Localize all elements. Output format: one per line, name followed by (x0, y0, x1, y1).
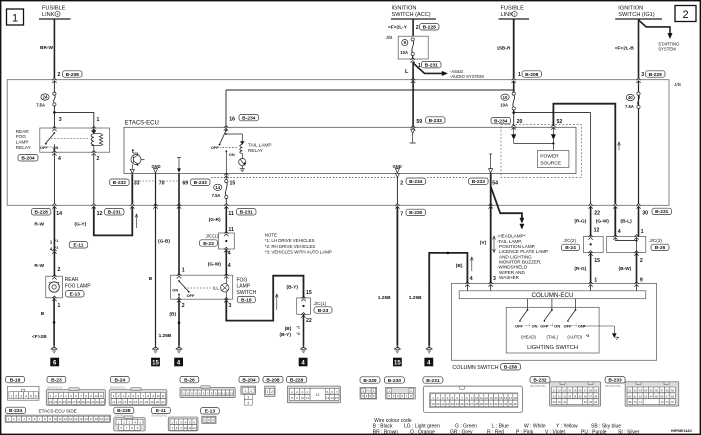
svg-text:J/C(1): J/C(1) (205, 233, 218, 238)
svg-text:(R-G): (R-G) (574, 219, 586, 225)
connector table B-26 (180, 376, 235, 397)
wire colour code legend (373, 418, 640, 435)
svg-text:40: 40 (628, 95, 633, 100)
svg-text:B-231: B-231 (240, 210, 254, 216)
svg-text:30: 30 (642, 211, 648, 217)
node crossing J/B top ACC (411, 78, 415, 83)
svg-text:20: 20 (156, 400, 160, 404)
ETACS internal ground to pin 2 (393, 164, 402, 173)
svg-text:36: 36 (584, 394, 588, 398)
svg-text:<F>2L-B: <F>2L-B (615, 45, 635, 51)
svg-text:(MU803748): (MU803748) (530, 384, 546, 388)
node J/B bottom pin 14 (52, 204, 56, 209)
svg-text:B-18: B-18 (10, 377, 21, 383)
svg-text:ILL: ILL (213, 286, 220, 291)
svg-text:69: 69 (182, 180, 188, 186)
svg-text:15B-R: 15B-R (497, 45, 511, 51)
svg-text:20: 20 (436, 402, 440, 406)
svg-text:J/C(2): J/C(2) (564, 238, 577, 243)
ETACS internal ground to pin 70 (152, 164, 161, 173)
svg-text:18: 18 (95, 417, 99, 421)
svg-text:18: 18 (145, 400, 149, 404)
ignition switch ACC (391, 6, 436, 20)
svg-text:J/B: J/B (386, 35, 393, 41)
connector table E-13 (201, 408, 220, 424)
svg-text:15: 15 (79, 417, 83, 421)
svg-text:R-W: R-W (34, 221, 44, 227)
svg-text:G : Green: G : Green (455, 423, 477, 429)
svg-text:<F>2L-Y: <F>2L-Y (388, 25, 408, 31)
connector B-26 label (651, 244, 669, 251)
svg-text:1.25B: 1.25B (409, 295, 422, 301)
svg-text:16: 16 (134, 400, 138, 404)
svg-text:7.5A: 7.5A (625, 104, 634, 109)
svg-text:21: 21 (91, 400, 95, 404)
power source internal bus (514, 139, 555, 150)
wire G-B pin 69 to fog lamp switch (158, 174, 185, 276)
svg-text:13: 13 (118, 400, 122, 404)
svg-text:33: 33 (568, 394, 572, 398)
svg-text:11: 11 (480, 396, 483, 400)
connector B-234 pin 20 label (491, 117, 511, 124)
svg-text:(G-W): (G-W) (208, 262, 221, 268)
svg-text:*3: VEHICLES WITH AUTO LAMP: *3: VEHICLES WITH AUTO LAMP (265, 249, 332, 254)
column pin 3 label (493, 276, 496, 282)
svg-text:7.5A: 7.5A (36, 103, 45, 108)
svg-text:4: 4 (228, 251, 231, 257)
svg-text:B: B (41, 311, 45, 317)
svg-text:23: 23 (100, 400, 104, 404)
svg-text:24: 24 (568, 388, 572, 392)
svg-text:(G-B): (G-B) (158, 239, 170, 245)
svg-text:SOURCE: SOURCE (540, 160, 562, 166)
svg-text:B-230: B-230 (388, 378, 402, 384)
svg-text:19: 19 (150, 400, 154, 404)
connector table B-23 (46, 376, 105, 405)
svg-text:20: 20 (105, 417, 109, 421)
svg-text:ETACS-ECU SIDE: ETACS-ECU SIDE (39, 409, 77, 414)
node J/B bottom pin 11 (224, 204, 228, 209)
svg-text:14: 14 (56, 211, 62, 217)
svg-text:B-234: B-234 (9, 408, 23, 414)
svg-text:16: 16 (84, 417, 88, 421)
svg-text:B-18: B-18 (241, 297, 252, 303)
svg-text:24: 24 (456, 402, 460, 406)
connector B-230 pin 7 label (400, 209, 425, 217)
ground 15 left (151, 346, 160, 367)
joint connector J/C(1) lower B-23 (297, 296, 327, 318)
svg-text:51: 51 (628, 388, 632, 392)
svg-text:(MU801513): (MU801513) (47, 386, 63, 390)
svg-text:(MU803748): (MU803748) (605, 384, 621, 388)
svg-text:Y : Yellow: Y : Yellow (556, 423, 578, 429)
ETACS-ECU box (124, 121, 576, 174)
svg-text:B-230: B-230 (409, 210, 423, 216)
svg-text:(B-W): (B-W) (619, 266, 632, 272)
svg-text:1: 1 (514, 13, 516, 17)
svg-text:61: 61 (634, 394, 638, 398)
svg-text:15: 15 (306, 290, 312, 296)
svg-text:34: 34 (504, 402, 508, 406)
node J/B bottom crossing pin33 wire (130, 204, 134, 209)
svg-text:2: 2 (250, 389, 252, 393)
ETACS illumination output arrow to pin 69 (177, 158, 181, 173)
fuse 9 10A (400, 38, 414, 59)
svg-text:3: 3 (20, 395, 22, 399)
wire B rear fog lamp to ground (32, 298, 61, 346)
wire G-W label to J/C(3) (596, 207, 621, 237)
svg-text:36: 36 (514, 402, 518, 406)
svg-text:11: 11 (188, 426, 191, 430)
svg-text:GND: GND (393, 164, 402, 169)
wire R-G pin 22 to J/C(2) (574, 113, 599, 237)
svg-text:35: 35 (579, 394, 583, 398)
connector B-208 pin 1 label (522, 71, 542, 78)
wire BR-W from fusible link 4 (40, 19, 61, 78)
svg-text:H9F08E14AC: H9F08E14AC (671, 429, 693, 433)
svg-text:4: 4 (470, 276, 473, 282)
svg-text:56: 56 (655, 388, 659, 392)
svg-text:*1: LH DRIVE VEHICLES: *1: LH DRIVE VEHICLES (265, 238, 315, 243)
sheet code (671, 429, 693, 433)
svg-text:WASHER: WASHER (499, 275, 520, 280)
wire 15B-R from fusible link 1 (497, 19, 521, 78)
sheet tab 2 (675, 6, 696, 22)
rear fog lamp relay name label (16, 129, 32, 150)
svg-text:17: 17 (139, 400, 143, 404)
svg-text:O : Orange: O : Orange (410, 430, 435, 435)
wire L to ETACS pin 59 and audio branch (405, 62, 484, 127)
ignition switch IG1 (615, 6, 662, 20)
relay output pin labels 4 and 2 (58, 156, 100, 162)
svg-text:B-24: B-24 (565, 245, 576, 251)
svg-text:12: 12 (49, 400, 53, 404)
svg-text:(B-L): (B-L) (621, 219, 633, 225)
svg-text:COLUMN-ECU: COLUMN-ECU (532, 292, 574, 299)
wire relay pin 4 to J/B pin 14 (53, 154, 55, 205)
svg-text:28: 28 (475, 402, 479, 406)
connector table B-232 (530, 377, 601, 406)
svg-text:W : White: W : White (524, 423, 546, 429)
svg-text:15: 15 (394, 361, 401, 367)
svg-text:B-228: B-228 (290, 377, 304, 383)
power source box (538, 150, 569, 167)
svg-text:17: 17 (509, 396, 513, 400)
svg-text:41: 41 (563, 400, 567, 404)
svg-text:10: 10 (184, 426, 188, 430)
wire B column pin 4 to ground 4 (409, 252, 473, 346)
svg-text:1: 1 (182, 267, 185, 273)
wire relay pin 2 to J/B pin 12 (93, 154, 95, 205)
svg-text:15: 15 (129, 400, 133, 404)
svg-text:1: 1 (97, 117, 100, 123)
svg-text:TAIL LAMP: TAIL LAMP (248, 142, 271, 147)
svg-text:18: 18 (77, 400, 81, 404)
node below fuse 9 (411, 58, 422, 69)
svg-text:LAMP: LAMP (16, 140, 29, 145)
node J/B bottom pin 30 (636, 204, 648, 217)
connector B-234 pin 2 label (406, 178, 426, 185)
svg-text:(B): (B) (169, 311, 176, 317)
svg-text:4: 4 (618, 229, 621, 235)
svg-text:B-231: B-231 (108, 210, 122, 216)
wire 16 to tail lamp relay from 15B-R junction (226, 90, 591, 127)
svg-text:10: 10 (156, 394, 160, 398)
connector B-231 pin 12 label (97, 209, 124, 217)
svg-text:REAR: REAR (65, 277, 79, 283)
svg-text:E-13: E-13 (70, 292, 81, 298)
wire R-G J/C(2) to column pin 1 (574, 252, 600, 283)
svg-text:*3: *3 (586, 334, 589, 338)
svg-text:11: 11 (228, 227, 234, 233)
svg-text:71: 71 (639, 400, 643, 404)
connector table B-238 (114, 407, 145, 431)
svg-text:(B): (B) (285, 326, 292, 332)
svg-text:LAMP: LAMP (237, 284, 251, 290)
svg-text:1: 1 (10, 395, 12, 399)
svg-text:BR : Brown: BR : Brown (373, 430, 399, 435)
svg-text:4: 4 (247, 401, 249, 405)
svg-text:15: 15 (594, 258, 600, 264)
svg-text:14: 14 (494, 396, 498, 400)
svg-text:B-23: B-23 (318, 308, 329, 314)
svg-text:13: 13 (489, 396, 493, 400)
svg-text:33: 33 (499, 402, 503, 406)
svg-text:12: 12 (97, 211, 103, 217)
svg-text:(MU801513): (MU801513) (110, 386, 126, 390)
svg-text:(G-Y): (G-Y) (75, 221, 87, 227)
svg-text:FUSIBLE: FUSIBLE (501, 6, 525, 12)
svg-text:42: 42 (584, 400, 588, 404)
svg-text:21: 21 (441, 402, 445, 406)
svg-text:13: 13 (326, 396, 330, 400)
connector B-229 pin 3 label (646, 71, 666, 78)
svg-text:53: 53 (639, 388, 643, 392)
svg-text:B-234: B-234 (242, 115, 256, 121)
svg-text:ON: ON (53, 145, 59, 150)
svg-text:16: 16 (68, 400, 72, 404)
wire G-R pin 11 to J/C(1) (209, 207, 234, 234)
svg-text:12: 12 (316, 393, 320, 397)
svg-text:B-23: B-23 (51, 377, 62, 383)
svg-text:28: 28 (589, 388, 593, 392)
svg-text:J/B: J/B (674, 82, 681, 88)
svg-text:IGNITION: IGNITION (618, 6, 643, 12)
connector B-208 pin 2 label (63, 71, 83, 78)
svg-text:10: 10 (503, 95, 508, 100)
svg-text:14: 14 (58, 400, 62, 404)
svg-text:V : Violet: V : Violet (545, 430, 566, 435)
svg-text:B-229: B-229 (649, 72, 663, 78)
column switch box B-258 (452, 283, 657, 371)
svg-text:12: 12 (594, 228, 600, 234)
svg-text:B-258: B-258 (504, 365, 518, 371)
wire R-W pin 14 to rear fog lamp (34, 207, 60, 277)
svg-text:14: 14 (123, 400, 127, 404)
svg-text:27: 27 (470, 402, 474, 406)
node J/B bottom pin 7 (395, 204, 399, 209)
svg-text:10: 10 (475, 396, 479, 400)
lighting switch box (506, 307, 599, 353)
wire G-W J/C(1) to fog lamp switch pin 4 (208, 249, 231, 275)
svg-text:26: 26 (579, 388, 583, 392)
node crossing J/B top 15B-R (512, 78, 516, 92)
svg-text:10: 10 (95, 394, 99, 398)
svg-text:R : Red: R : Red (487, 430, 504, 435)
connector E-13 label (66, 291, 85, 298)
svg-text:2: 2 (400, 180, 403, 186)
connector B-18 label (237, 296, 255, 303)
connector B-258 label (501, 364, 521, 371)
svg-text:OFF: OFF (515, 324, 523, 329)
svg-text:(HEAD): (HEAD) (521, 334, 536, 339)
svg-text:11: 11 (162, 394, 165, 398)
svg-text:10: 10 (53, 417, 57, 421)
connector table B-231 (423, 377, 523, 413)
svg-text:COLUMN SWITCH: COLUMN SWITCH (452, 365, 498, 371)
svg-text:11: 11 (228, 211, 234, 217)
svg-text:62: 62 (639, 394, 643, 398)
svg-text:LG : Light green: LG : Light green (404, 423, 440, 429)
svg-text:7.5A: 7.5A (212, 193, 221, 198)
svg-text:15: 15 (230, 180, 236, 186)
svg-text:*1: *1 (297, 325, 300, 329)
svg-text:20: 20 (86, 400, 90, 404)
note block (265, 233, 332, 255)
wire B pin 70 to ground 15 (149, 276, 153, 282)
svg-text:22: 22 (96, 400, 100, 404)
svg-text:17: 17 (90, 417, 94, 421)
svg-text:OFF: OFF (40, 145, 48, 150)
svg-text:B-208: B-208 (266, 377, 280, 383)
svg-text:FOG: FOG (237, 277, 248, 283)
svg-text:L : Blue: L : Blue (492, 423, 509, 429)
svg-text:19: 19 (431, 402, 435, 406)
rear fog lamp relay B-204 (40, 126, 110, 155)
svg-text:66: 66 (660, 394, 664, 398)
connector B-231 pin 1 label (422, 62, 442, 69)
svg-text:P : Pink: P : Pink (516, 430, 534, 435)
fuse 14 7.5A under ETACS pin 15 (212, 173, 236, 205)
svg-text:B-208: B-208 (66, 72, 80, 78)
svg-text:2: 2 (97, 156, 100, 162)
svg-text:11: 11 (100, 394, 103, 398)
connector table B-233 (605, 377, 679, 406)
ground 4 middle (299, 346, 308, 367)
svg-text:59: 59 (416, 119, 422, 125)
svg-text:RELAY: RELAY (16, 145, 32, 150)
fusible link 1 (499, 6, 530, 20)
svg-text:B-233: B-233 (194, 180, 208, 186)
svg-text:22: 22 (446, 402, 450, 406)
svg-text:35: 35 (509, 402, 513, 406)
fog lamp switch name (237, 277, 257, 295)
svg-text:2: 2 (640, 258, 643, 264)
svg-text:72: 72 (660, 400, 664, 404)
node J/B bottom pin 22 (588, 204, 600, 217)
svg-text:29: 29 (594, 388, 598, 392)
svg-text:NOTE: NOTE (265, 233, 277, 238)
svg-text:68: 68 (671, 394, 675, 398)
connector B-233 pin 59 label (416, 117, 445, 125)
svg-text:31: 31 (489, 402, 493, 406)
direction arrow inside J/B right (618, 142, 621, 151)
svg-text:BR-W: BR-W (40, 45, 54, 51)
svg-text:OFF: OFF (564, 324, 572, 329)
svg-text:B-231: B-231 (426, 378, 440, 384)
svg-text:1: 1 (518, 72, 521, 78)
node ETACS top pin 16 (224, 126, 228, 131)
svg-text:*2: *2 (297, 332, 300, 336)
svg-text:B-232: B-232 (533, 378, 547, 384)
connector B-233 pin 54 label (469, 178, 489, 185)
fuse 10 10A (500, 92, 515, 110)
svg-text:60: 60 (628, 394, 632, 398)
svg-text:LINK: LINK (42, 12, 55, 18)
svg-text:4: 4 (228, 263, 231, 269)
svg-text:73: 73 (666, 400, 670, 404)
svg-text:19: 19 (100, 417, 104, 421)
connector table B-234 (5, 407, 110, 422)
wire 2L-Y from ignition ACC (388, 19, 419, 36)
svg-text:1: 1 (267, 390, 269, 394)
connector table B-228 (287, 376, 341, 402)
connector B-234 pin 16 label (239, 114, 259, 121)
svg-text:LIGHTING SWITCH: LIGHTING SWITCH (527, 345, 578, 351)
wire 2L-B from ignition IG1 and starting system branch (615, 19, 680, 78)
svg-text:23: 23 (563, 388, 567, 392)
wire B-Y fog switch pin 3 to J/C(1) lower (226, 276, 312, 321)
rear fog lamp E-13 (46, 274, 91, 301)
svg-text:24: 24 (43, 95, 48, 100)
svg-text:43: 43 (589, 400, 593, 404)
svg-text:SWITCH (ACC): SWITCH (ACC) (392, 12, 431, 18)
svg-text:16: 16 (504, 396, 508, 400)
svg-text:*2: *2 (55, 246, 58, 250)
svg-text:B-231: B-231 (425, 63, 439, 69)
svg-text:22: 22 (306, 318, 312, 324)
node ETACS bottom pin 33 (130, 169, 134, 173)
svg-text:ETACS-ECU: ETACS-ECU (125, 121, 159, 127)
connector B-231 pin 11 label (228, 209, 256, 217)
svg-text:FOG LAMP: FOG LAMP (65, 284, 92, 290)
svg-text:B-26: B-26 (184, 377, 195, 383)
connector B-228 pin 14 label (31, 209, 62, 217)
ground 4 left (174, 346, 183, 367)
svg-text:37: 37 (589, 394, 593, 398)
svg-text:30: 30 (485, 402, 489, 406)
svg-text:2: 2 (271, 390, 273, 394)
column-ecu box (459, 282, 646, 300)
svg-text:1.25B: 1.25B (378, 295, 391, 301)
svg-text:4: 4 (25, 395, 27, 399)
node J/B bottom crossing pin69 wire (177, 204, 181, 209)
node crossing J/B top IG1 (636, 78, 640, 92)
svg-text:9: 9 (640, 278, 643, 284)
connector table E-11 (152, 407, 199, 431)
connector B-23 label upper (200, 240, 218, 247)
svg-text:(TAIL): (TAIL) (547, 334, 559, 339)
connector B-233 pin 69 label (182, 179, 210, 186)
svg-text:22: 22 (594, 211, 600, 217)
svg-text:FUSIBLE: FUSIBLE (42, 6, 66, 12)
wire B-W J/C(3) to column pin 9 (619, 252, 643, 283)
svg-text:(B-Y): (B-Y) (280, 332, 292, 338)
svg-text:(B-Y): (B-Y) (287, 284, 299, 290)
joint connector J/C(2) B-24 (564, 235, 604, 256)
node J/B bottom pin 12 (92, 204, 96, 209)
svg-text:2: 2 (15, 395, 17, 399)
